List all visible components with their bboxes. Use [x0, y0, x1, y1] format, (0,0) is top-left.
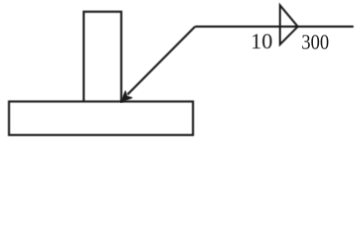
svg-text:10: 10 — [251, 28, 273, 53]
base plate rectangle — [9, 102, 193, 136]
reference line — [195, 26, 354, 28]
svg-text:300: 300 — [301, 31, 329, 54]
vertical plate (left edge, top edge, right edge) — [84, 12, 122, 102]
arrowhead of leader — [121, 91, 132, 102]
leader line (arrow shaft) — [128, 27, 196, 95]
fillet weld symbol triangle — [280, 5, 298, 44]
